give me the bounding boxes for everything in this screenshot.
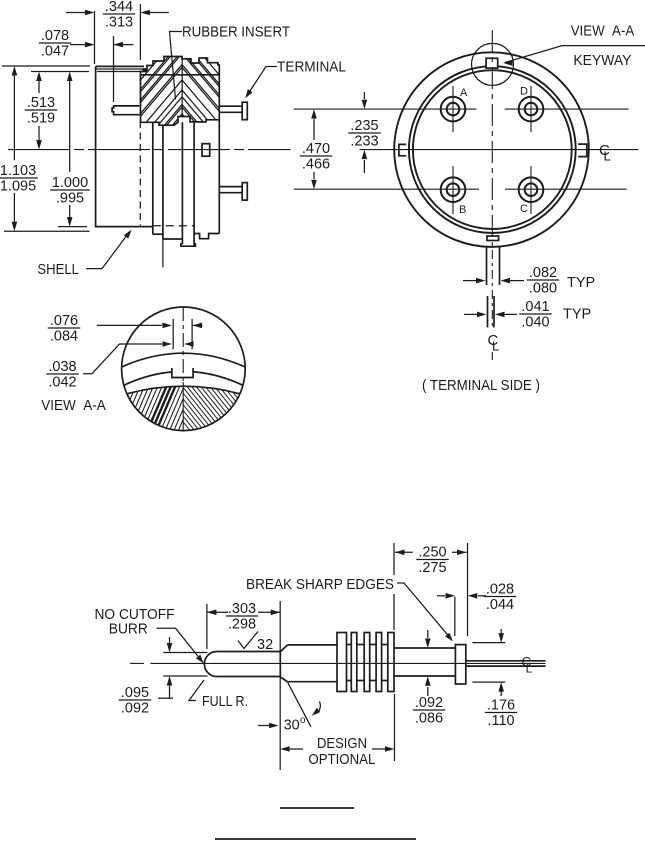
rubber insert outline <box>141 57 220 126</box>
svg-text:.470: .470 <box>302 141 330 157</box>
dimension .078/.047 <box>70 11 134 102</box>
dimension 1.000/.995 <box>58 79 87 227</box>
detail circle <box>122 307 246 431</box>
svg-text:.298: .298 <box>228 617 256 633</box>
svg-text:A: A <box>460 87 468 99</box>
lower terminal <box>219 183 247 201</box>
svg-text:FULL R.: FULL R. <box>202 693 248 710</box>
view horizontal centerline + CL <box>360 149 639 151</box>
arc band 1 <box>122 353 246 367</box>
svg-text:DESIGN: DESIGN <box>317 735 367 752</box>
bottom long rule <box>215 838 416 840</box>
bottom short rule <box>280 807 354 809</box>
terminal A <box>441 86 468 132</box>
dim .250/.275 <box>394 543 468 636</box>
30 degree callout <box>288 682 311 726</box>
flange <box>455 645 465 684</box>
dim .076/.084 <box>97 324 162 326</box>
svg-text:o: o <box>300 715 306 726</box>
svg-text:B: B <box>459 204 466 216</box>
mid section <box>394 647 455 649</box>
dimension .470/.466 <box>313 119 315 179</box>
svg-text:.095: .095 <box>121 685 149 701</box>
svg-text:VIEW A-A: VIEW A-A <box>41 397 106 414</box>
svg-text:1.103: 1.103 <box>0 163 36 179</box>
rubber insert chevron hatch <box>140 6 220 174</box>
flange-insert junction wedge <box>143 68 148 72</box>
svg-text:L: L <box>526 662 533 676</box>
svg-text:TYP: TYP <box>567 275 595 291</box>
svg-text:VIEW A-A: VIEW A-A <box>571 23 635 40</box>
svg-text:.086: .086 <box>415 711 443 727</box>
hanging vertical line below body <box>162 239 164 267</box>
terminal row line B-C <box>294 188 479 190</box>
hidden line shell inner (dashed) <box>139 75 141 227</box>
svg-text:.076: .076 <box>50 313 78 329</box>
svg-text:SHELL: SHELL <box>37 261 79 278</box>
svg-text:.110: .110 <box>487 713 514 729</box>
svg-text:.092: .092 <box>415 695 443 711</box>
svg-text:L: L <box>604 149 611 164</box>
nose to taper top/bottom <box>217 651 280 653</box>
dim .092/.086 <box>427 630 429 638</box>
nose (full radius tip) <box>204 652 217 677</box>
label FULL R. <box>189 680 204 701</box>
dim .041/.040 TYP <box>464 313 477 315</box>
svg-text:.466: .466 <box>302 157 330 173</box>
tail wire <box>466 660 546 662</box>
detail centerline <box>182 307 184 382</box>
dim .303/.298 <box>207 601 280 651</box>
svg-text:.235: .235 <box>350 118 378 134</box>
svg-text:OPTIONAL: OPTIONAL <box>308 751 375 768</box>
svg-text:.176: .176 <box>487 698 515 714</box>
svg-text:L: L <box>492 339 499 354</box>
insert center joint line <box>181 57 183 117</box>
arc band 2 <box>124 371 243 385</box>
terminal B <box>441 166 467 216</box>
terminal D <box>519 86 544 133</box>
detail hatch left <box>110 366 302 438</box>
dim .176/.110 <box>472 629 505 696</box>
dimension .513/.519 <box>31 72 89 143</box>
svg-text:.250: .250 <box>418 545 446 561</box>
dimension .235/.233 <box>363 92 365 99</box>
svg-text:.313: .313 <box>105 15 133 31</box>
CL symbol right <box>599 142 611 164</box>
svg-text:.042: .042 <box>48 375 76 391</box>
svg-text:1.000: 1.000 <box>52 175 88 191</box>
hidden bottom dashed segment <box>153 225 194 227</box>
svg-text:.044: .044 <box>486 597 514 613</box>
CL at pin <box>522 655 533 676</box>
svg-text:C: C <box>520 203 528 215</box>
svg-text:32: 32 <box>257 637 273 653</box>
surface finish 32 <box>238 632 258 649</box>
terminal C <box>519 166 544 215</box>
hatch boundary arc <box>127 386 240 394</box>
dim .082/.080 TYP <box>463 280 477 282</box>
svg-text:.028: .028 <box>486 582 514 598</box>
svg-text:.078: .078 <box>41 28 69 44</box>
taper neck <box>279 652 281 677</box>
keyway rect <box>486 58 498 68</box>
left tab <box>399 144 406 155</box>
outer circle <box>394 52 589 247</box>
big body <box>288 644 338 646</box>
svg-text:1.095: 1.095 <box>0 179 36 195</box>
svg-text:RUBBER INSERT: RUBBER INSERT <box>182 24 290 41</box>
upper terminal <box>219 102 247 120</box>
dimension 1.103/1.095 <box>2 66 90 231</box>
insert key tab <box>112 106 139 115</box>
svg-text:.082: .082 <box>529 265 557 281</box>
svg-text:.092: .092 <box>121 701 149 717</box>
svg-text:D: D <box>520 86 528 98</box>
inner body cavity lines <box>153 120 220 246</box>
svg-text:.519: .519 <box>27 111 55 127</box>
shell outline <box>96 66 152 226</box>
insert top line <box>141 74 220 76</box>
dimension .344/.313 <box>66 4 169 60</box>
dim .095/.092 <box>158 637 208 698</box>
svg-text:.041: .041 <box>521 299 549 315</box>
keyway circle <box>472 43 514 85</box>
bottom keyway slot <box>487 236 499 241</box>
keyway rect (side view) <box>202 144 210 157</box>
svg-text:.084: .084 <box>50 329 78 345</box>
vertical centerline of circular view <box>491 30 493 246</box>
svg-text:( TERMINAL SIDE ): ( TERMINAL SIDE ) <box>422 378 540 394</box>
pin centerline <box>130 662 144 664</box>
vertical ext lines x=280.2 and x=394.5 below pin <box>279 677 281 770</box>
bottom profile of inner body <box>153 233 163 235</box>
keyway rect detail <box>172 368 193 378</box>
svg-text:BREAK SHARP EDGES: BREAK SHARP EDGES <box>246 576 394 593</box>
svg-text:TERMINAL: TERMINAL <box>277 59 346 76</box>
dim .028/.044 <box>454 597 456 636</box>
svg-text:TYP: TYP <box>563 307 591 323</box>
inner ring 1 <box>409 66 576 233</box>
svg-text:30: 30 <box>284 718 300 734</box>
extension ticks <box>172 319 174 349</box>
svg-text:.233: .233 <box>350 134 378 150</box>
svg-text:KEYWAY: KEYWAY <box>573 52 631 69</box>
svg-text:.513: .513 <box>27 95 55 111</box>
svg-text:.303: .303 <box>228 601 256 617</box>
svg-text:.047: .047 <box>41 44 69 60</box>
svg-text:BURR: BURR <box>109 621 148 638</box>
.082/.080 slot lines <box>487 247 500 328</box>
svg-text:.038: .038 <box>48 359 76 375</box>
fins <box>337 633 394 692</box>
svg-text:.080: .080 <box>529 281 557 297</box>
terminal row line A-D <box>294 108 477 110</box>
dim .038/.042 leader <box>83 344 162 374</box>
svg-text:.995: .995 <box>56 191 84 207</box>
bottom CL symbol <box>488 332 500 360</box>
section view horizontal centerline <box>8 149 291 151</box>
svg-text:.344: .344 <box>105 0 133 15</box>
svg-text:.275: .275 <box>418 560 446 576</box>
inner ring 2 <box>413 70 572 229</box>
right tab <box>578 144 587 157</box>
svg-text:.040: .040 <box>521 315 549 331</box>
